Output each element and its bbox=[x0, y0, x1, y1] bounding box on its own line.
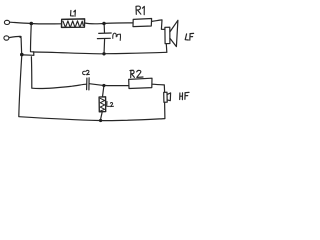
node A junction dot bbox=[30, 22, 34, 26]
capacitor C1 top stub bbox=[103, 25, 105, 33]
wire node A to L1 bbox=[33, 23, 61, 25]
wire corner blob bbox=[19, 36, 21, 38]
inductor L2 top stub bbox=[103, 87, 104, 97]
label R1 bbox=[136, 6, 144, 15]
wire terminal2 right then down bbox=[9, 36, 22, 52]
node E junction dot bbox=[99, 119, 102, 122]
label HF bbox=[180, 92, 189, 99]
wire bottom rail of top loop bbox=[106, 52, 167, 53]
wire L1 to node B bbox=[85, 22, 102, 25]
node B junction dot bbox=[102, 22, 105, 25]
resistor R2 box bbox=[129, 78, 152, 88]
label R2 bbox=[130, 70, 143, 77]
inductor L1 coil zigzag bbox=[63, 21, 83, 27]
inductor L2 coil zigzag bbox=[100, 98, 105, 111]
node C junction dot bbox=[20, 53, 24, 57]
terminal input + bbox=[4, 20, 9, 24]
node D junction dot bbox=[102, 84, 105, 87]
label L2 bbox=[107, 102, 114, 107]
wire node B to R1 bbox=[106, 22, 133, 25]
speaker HF cone bbox=[167, 93, 170, 101]
speaker LF cone bbox=[170, 20, 178, 46]
wire R2 to HF speaker top bbox=[152, 84, 164, 92]
wire left side down from node C bbox=[19, 57, 22, 117]
capacitor C1 bottom plate bbox=[97, 37, 110, 39]
label LF bbox=[185, 33, 193, 40]
capacitor C2 left plate bbox=[86, 78, 88, 90]
capacitor C2 right plate bbox=[88, 78, 90, 90]
label L1 bbox=[71, 10, 76, 16]
wire vertical below hop to bottom loop bbox=[30, 57, 32, 88]
label C1 bbox=[113, 33, 121, 40]
capacitor C1 bottom stub bbox=[103, 39, 106, 52]
inductor L2 bottom stub bbox=[101, 112, 103, 119]
label C2 bbox=[83, 70, 90, 74]
wire rail continues left bbox=[19, 117, 99, 121]
wire rail continues left to hop bbox=[34, 52, 102, 54]
speaker LF driver box bbox=[165, 27, 170, 44]
wire terminal1 to node A bbox=[10, 22, 30, 23]
inductor L2 box bbox=[99, 97, 106, 112]
node C1 bottom junction dot bbox=[102, 52, 105, 55]
speaker HF driver box bbox=[164, 92, 168, 102]
terminal input - bbox=[4, 36, 9, 40]
inductor L1 box bbox=[62, 19, 85, 28]
capacitor C1 top plate bbox=[99, 32, 112, 34]
wire node D to R2 bbox=[106, 85, 129, 87]
wire bottom rail of bottom loop bbox=[102, 119, 165, 121]
wire LF bottom down bbox=[165, 44, 168, 52]
wire C2 to node D bbox=[89, 84, 102, 86]
wire top rail of bottom loop bbox=[32, 84, 86, 88]
wire R1 to LF speaker top bbox=[152, 20, 165, 30]
resistor R1 box bbox=[133, 19, 152, 27]
wire rail left stub to node C bbox=[23, 54, 33, 56]
wire step at crossing bbox=[33, 52, 35, 55]
wire HF bottom down bbox=[164, 102, 166, 118]
wire vertical from node A down bbox=[31, 25, 34, 52]
